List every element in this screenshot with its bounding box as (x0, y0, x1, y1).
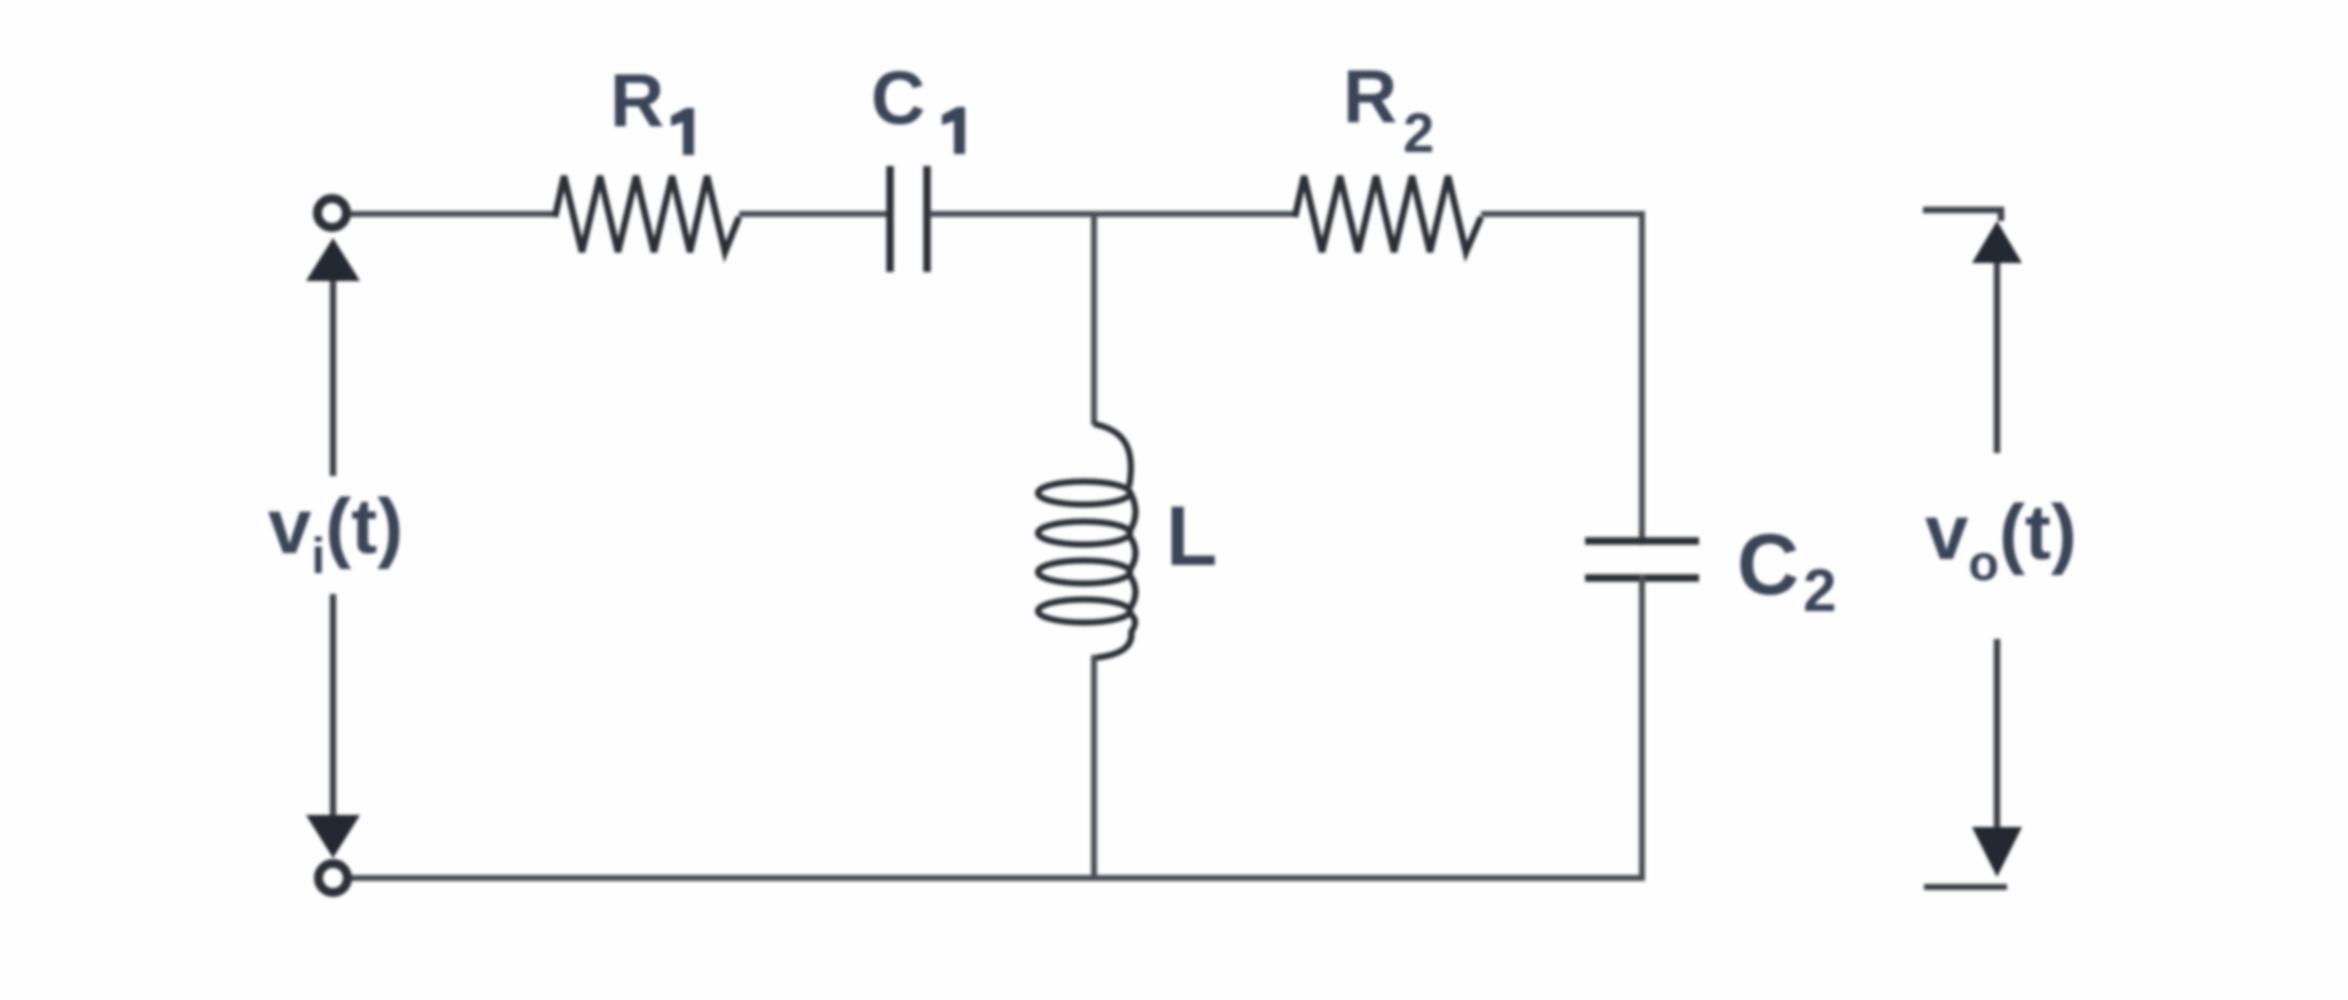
inductor L coil (1094, 424, 1131, 487)
svg-text:R2: R2 (1343, 54, 1434, 164)
wire C1 to node A and on to R2 (929, 211, 1295, 217)
right rail below C2 to bottom (1639, 575, 1645, 878)
vi down arrow (330, 594, 337, 818)
resistor R1 (555, 176, 739, 252)
svg-text:vi(t): vi(t) (268, 482, 403, 584)
right rail down to C2 (1639, 211, 1645, 545)
input terminal top (open circle) (318, 199, 347, 228)
wire R2 to top-right corner (1481, 211, 1645, 217)
svg-text:C: C (871, 56, 925, 140)
vi up arrow (330, 279, 337, 476)
input terminal bottom (open circle) (319, 864, 348, 893)
vo down arrow (1994, 639, 2001, 830)
svg-text:C2: C2 (1737, 517, 1836, 624)
capacitor C2 (1585, 541, 1699, 578)
wire R1 to C1 (739, 211, 888, 217)
svg-text:R: R (610, 58, 664, 142)
resistor R2 (1295, 176, 1481, 252)
node A vertical wire down to inductor (1091, 214, 1097, 425)
bottom rail wire (350, 875, 1645, 881)
wire top-left (input top rail to R1) (349, 211, 557, 217)
vo up arrow (1994, 261, 2001, 453)
capacitor C1 (890, 166, 927, 272)
svg-text:vo(t): vo(t) (1925, 488, 2077, 591)
vo top tick (1923, 210, 2001, 221)
vo bottom tick (1924, 884, 2007, 890)
inductor bottom lead (1091, 655, 1097, 878)
svg-text:L: L (1166, 489, 1217, 583)
